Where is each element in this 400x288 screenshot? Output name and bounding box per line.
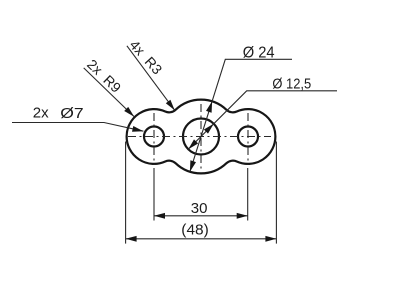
- arrow dim30 left: [154, 213, 165, 219]
- arrow Ø12,5 upper: [204, 124, 214, 134]
- leader line 2x Ø7: [12, 123, 143, 132]
- centerline horizontal: [128, 136, 271, 138]
- svg-text:Ø 12,5: Ø 12,5: [272, 75, 311, 92]
- leader line Ø12,5: [188, 91, 337, 149]
- arrow leader R3: [166, 100, 175, 111]
- dimension line 48: [126, 238, 277, 240]
- arrow dim48 right: [265, 236, 276, 242]
- hole Ø7 left: [144, 127, 164, 147]
- arrow Ø24 upper: [206, 101, 212, 112]
- extension line right 30: [247, 168, 249, 221]
- leader line 2x R9: [84, 68, 134, 117]
- hole Ø12,5 center: [183, 119, 219, 155]
- arrow dim48 left: [126, 236, 137, 242]
- dimension line 30: [154, 215, 248, 217]
- extension line left 30: [153, 168, 155, 221]
- centerline vertical right hole: [247, 113, 249, 165]
- extension line right 48: [275, 142, 277, 244]
- arrow dim30 right: [237, 213, 248, 219]
- svg-text:30: 30: [191, 200, 208, 217]
- arrow leader Ø7: [132, 126, 143, 132]
- leader line 4x R3: [127, 46, 175, 111]
- centerline vertical center hole: [200, 104, 202, 172]
- svg-text:Ø 24: Ø 24: [243, 45, 275, 62]
- arrow Ø12,5 lower: [188, 139, 198, 149]
- svg-text:2x: 2x: [33, 105, 49, 122]
- part outline: [127, 100, 276, 174]
- centerline vertical left hole: [153, 113, 155, 165]
- hole Ø7 right: [238, 127, 258, 147]
- svg-text:Ø7: Ø7: [60, 105, 83, 122]
- extension line left 48: [125, 142, 127, 244]
- arrow Ø24 lower: [190, 160, 196, 171]
- arrow leader R9: [124, 107, 134, 117]
- svg-text:(48): (48): [181, 221, 209, 238]
- svg-text:2x R9: 2x R9: [84, 56, 124, 96]
- diameter line Ø24: [190, 59, 292, 171]
